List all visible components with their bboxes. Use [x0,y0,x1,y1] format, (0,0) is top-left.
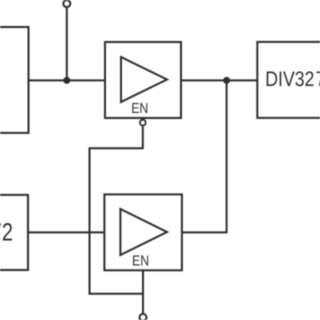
wire buffer U2 EN pin to bottom terminal [142,270,144,313]
buffer U1 EN bubble (active-low) [140,120,146,126]
svg-text:EN: EN [132,254,149,270]
terminal pin top (open circle, clipped at top) [63,0,70,7]
wire U1 enable routing down-left-down-right to U2 EN net [90,126,144,294]
block U3 oscillator (clipped at left edge) [0,27,29,133]
buffer U1 box [105,42,181,118]
block divider 72 (clipped at left edge) [0,195,28,270]
buffer U1 triangle [121,57,167,102]
block DIV32768 divider (clipped at right edge) [257,42,320,118]
wire buffer U1 output to DIV32768 input [181,79,257,81]
terminal pin bottom (open circle, clipped at bottom) [140,314,147,320]
node junction dot 2 [223,77,230,84]
wire node to top terminal [66,7,68,80]
wire oscillator output to buffer U1 input [29,79,106,81]
svg-text:768: 768 [316,68,320,91]
svg-text:72: 72 [0,219,13,247]
wire buffer U2 output up to output node [182,80,227,232]
wire divider 72 output to buffer U2 input [28,231,104,233]
buffer U2 triangle [120,209,167,255]
node junction dot 1 [63,77,70,84]
svg-text:EN: EN [131,101,148,117]
svg-text:DIV32: DIV32 [265,68,314,91]
buffer U2 box [104,194,181,270]
